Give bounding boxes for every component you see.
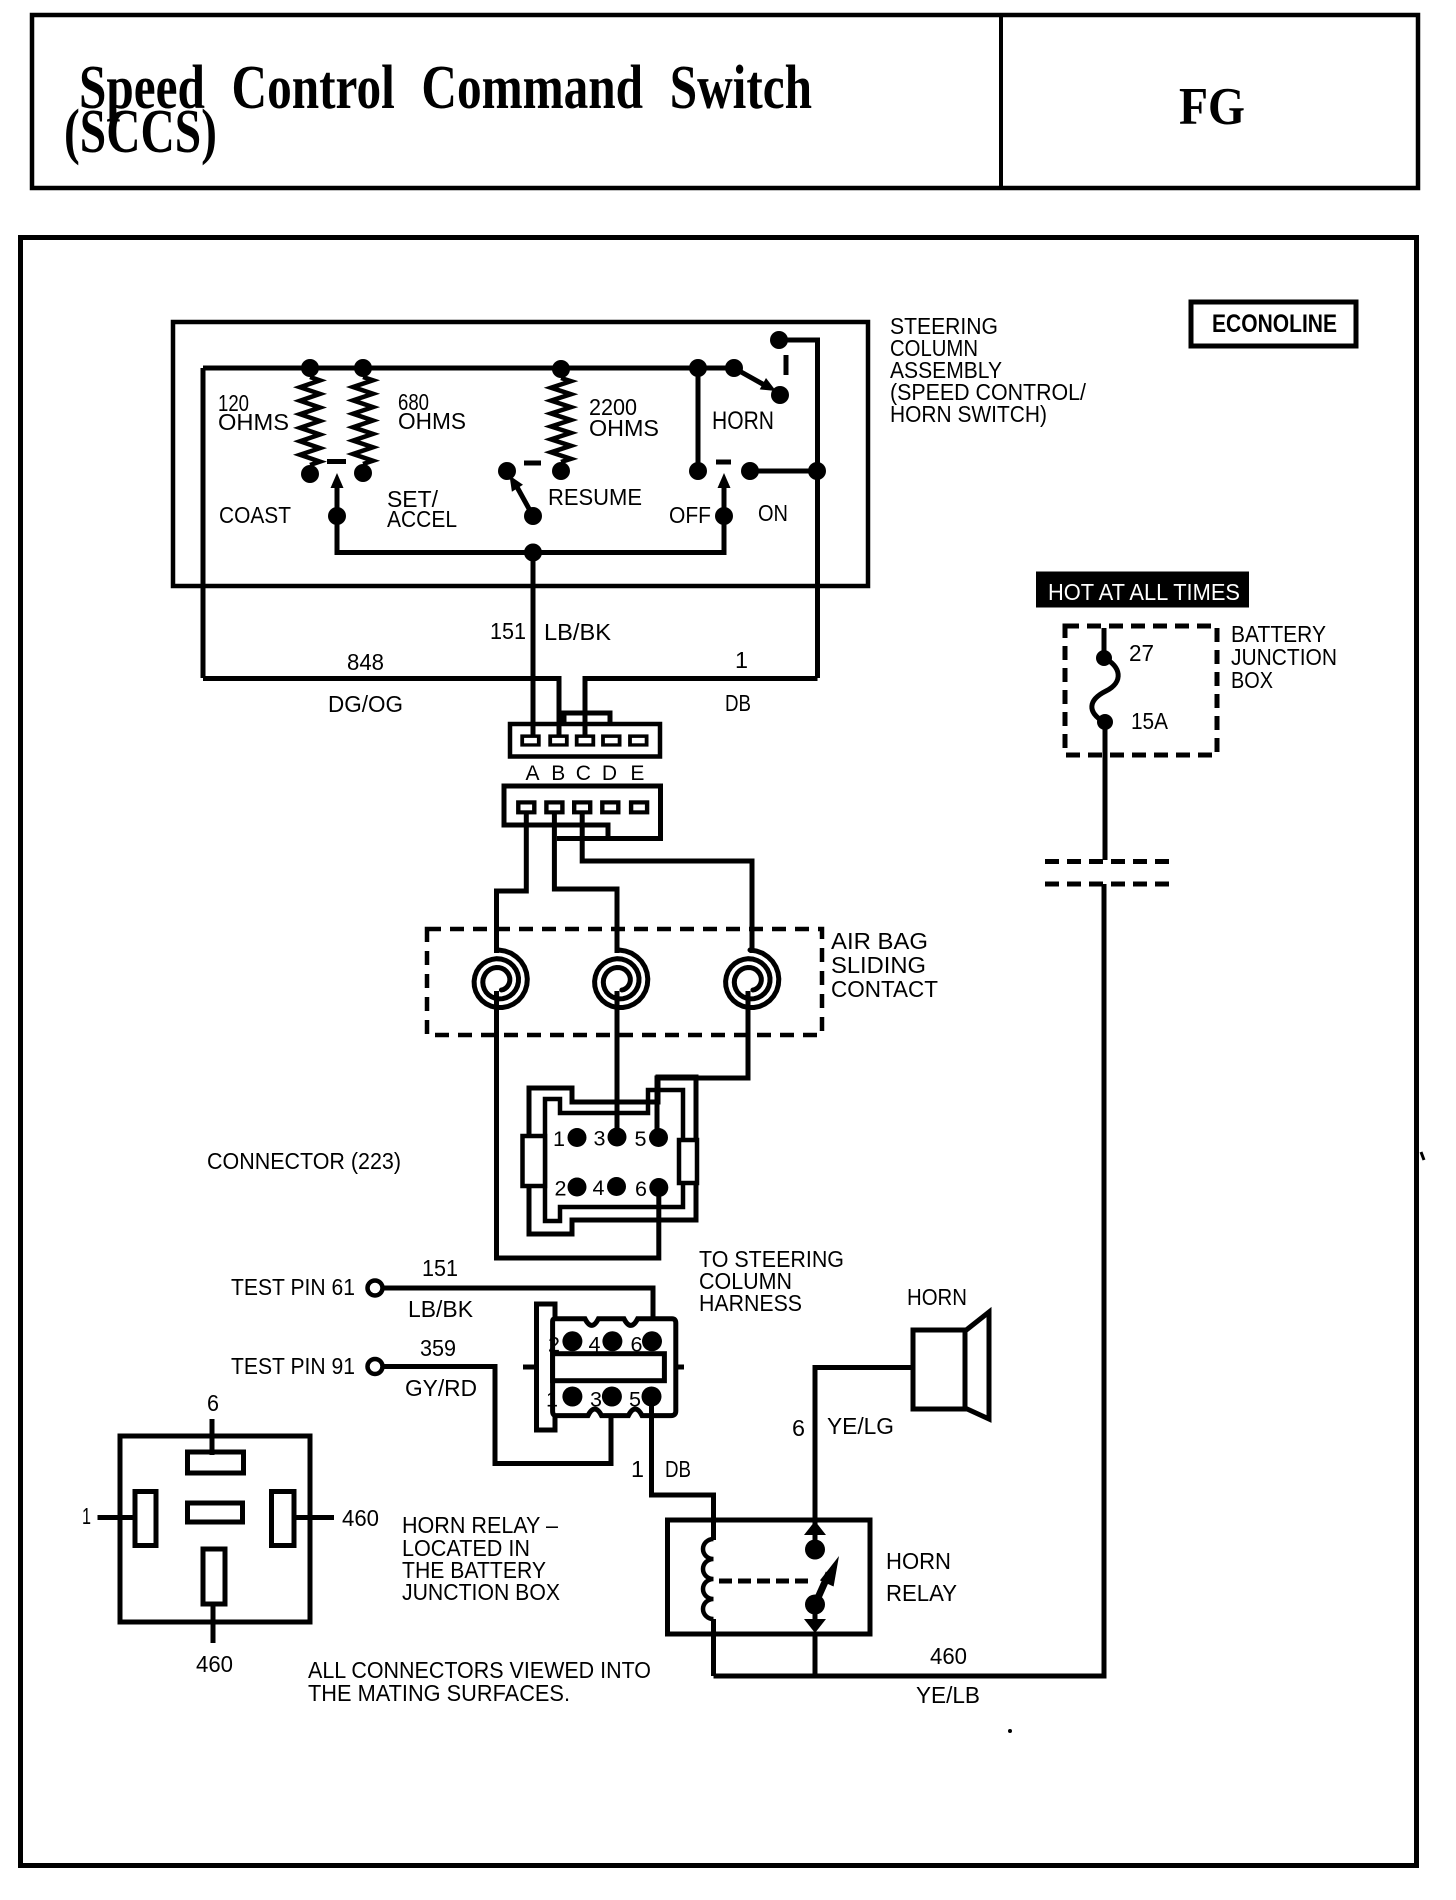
svg-text:THE MATING SURFACES.: THE MATING SURFACES.: [308, 1680, 570, 1706]
svg-text:DB: DB: [665, 1456, 691, 1482]
svg-text:TEST PIN 91: TEST PIN 91: [231, 1353, 355, 1379]
horn relay coil: [703, 1539, 713, 1619]
wire: 1 DB harness pin 5 to horn relay coil: [652, 1400, 714, 1540]
svg-text:HORN: HORN: [907, 1284, 967, 1310]
wire: pin B to air bag contact 2: [554, 814, 617, 953]
wire: right bus 1 DB to pin C: [585, 679, 818, 737]
harness connector right tick: [676, 1365, 684, 1370]
svg-text:ECONOLINE: ECONOLINE: [1212, 310, 1337, 338]
svg-text:ACCEL: ACCEL: [387, 506, 457, 532]
relay switch blade: [813, 1573, 830, 1610]
svg-text:460: 460: [342, 1505, 379, 1531]
svg-text:CONTACT: CONTACT: [831, 976, 938, 1002]
sliding contact coil 2: [595, 950, 648, 1008]
svg-text:C: C: [576, 762, 591, 785]
svg-text:848: 848: [347, 649, 384, 675]
svg-text:151: 151: [422, 1255, 458, 1281]
svg-text:OFF: OFF: [669, 502, 711, 528]
wire: coil to bottom bus: [711, 1619, 716, 1676]
pin A (male): [520, 734, 540, 746]
wire: 359 GY/RD test pin 91 to harness pin 3: [384, 1367, 612, 1464]
connector 223 pin 5: [649, 1128, 668, 1147]
harness connector pin 6: [642, 1331, 662, 1351]
pin A (female): [516, 800, 536, 814]
svg-text:DB: DB: [725, 690, 751, 716]
battery junction box dashed: [1065, 626, 1217, 755]
wire: ON contact to right riser: [750, 469, 817, 474]
svg-text:3: 3: [594, 1128, 606, 1151]
harness connector pin 1: [562, 1387, 582, 1407]
hot at all times banner: [1036, 572, 1249, 608]
lead 460 bottom: [211, 1604, 216, 1643]
svg-text:5: 5: [629, 1389, 641, 1412]
title block border: [32, 15, 1418, 188]
connector 223 pin 2: [568, 1178, 587, 1197]
horn relay box: [668, 1520, 871, 1634]
wire: top bus inside switch box: [203, 366, 734, 371]
relay connector pin 6 (top): [188, 1452, 244, 1473]
pin D (female): [600, 800, 620, 814]
svg-text:15A: 15A: [1131, 708, 1169, 734]
svg-text:BOX: BOX: [1231, 667, 1273, 693]
svg-text:HARNESS: HARNESS: [699, 1290, 802, 1316]
wire: center common down to pin A (151 LB/BK): [531, 553, 536, 739]
svg-text:RELAY: RELAY: [886, 1580, 957, 1606]
connector 223 pin 4: [607, 1177, 626, 1196]
wire: pin C to air bag contact 3: [582, 814, 752, 953]
wire: pin A to air bag contact 1: [497, 814, 527, 953]
harness connector pin 5: [642, 1387, 662, 1407]
svg-text:OHMS: OHMS: [398, 408, 466, 434]
stray tick mark right of border: [1421, 1152, 1424, 1160]
steering column assembly box: [173, 322, 868, 586]
wire: 6 YE/LG horn to relay switch: [815, 1368, 913, 1543]
harness connector left tab: [537, 1304, 556, 1430]
wire: common bus of switches: [337, 516, 724, 553]
wire: battery feed down: [1103, 722, 1108, 860]
title block divider: [999, 15, 1003, 188]
svg-text:460: 460: [196, 1651, 233, 1677]
sliding contact coil 3: [726, 950, 779, 1008]
svg-text:6: 6: [631, 1333, 643, 1356]
resistor 2200 ohms: [551, 378, 571, 462]
relay switch bottom contact: [805, 1595, 825, 1615]
wire: left bus 848 to pin B: [203, 679, 559, 737]
pin E (male): [628, 734, 648, 746]
svg-text:HORN SWITCH): HORN SWITCH): [890, 401, 1047, 427]
wire: contact 2 to connector 223 pin 3: [615, 991, 620, 1133]
lead 460 right: [294, 1515, 334, 1520]
svg-text:1: 1: [553, 1128, 565, 1151]
svg-text:5: 5: [635, 1128, 647, 1151]
fuse 27 15A: [1102, 628, 1107, 652]
svg-text:E: E: [630, 762, 644, 785]
harness connector body: [553, 1319, 676, 1416]
wire: 151 LB/BK test pin 61 to harness pin 6: [384, 1288, 654, 1336]
svg-text:6: 6: [635, 1178, 647, 1201]
switch COAST / SET-ACCEL: [327, 459, 346, 464]
lead 6: [210, 1419, 215, 1455]
svg-text:6: 6: [792, 1415, 805, 1441]
svg-text:27: 27: [1129, 640, 1154, 666]
connector 223 pin 1: [568, 1128, 587, 1147]
sliding contact coil 1: [474, 950, 527, 1008]
svg-text:HORN: HORN: [886, 1548, 951, 1574]
connector (223) inner outline: [545, 1090, 683, 1221]
relay switch bottom terminal arrow: [813, 1612, 818, 1620]
relay connector pin 460 (right): [272, 1492, 295, 1546]
pin B (male): [548, 734, 568, 746]
svg-text:TEST PIN 61: TEST PIN 61: [231, 1274, 355, 1300]
svg-text:359: 359: [420, 1335, 456, 1361]
svg-text:151: 151: [490, 618, 526, 644]
connector: SCCS 5-pin male: [564, 713, 610, 724]
svg-text:6: 6: [207, 1390, 219, 1416]
svg-text:2: 2: [548, 1333, 560, 1356]
svg-text:RESUME: RESUME: [548, 484, 642, 510]
svg-text:GY/RD: GY/RD: [405, 1375, 477, 1401]
svg-text:4: 4: [589, 1333, 601, 1356]
svg-text:AIR BAG: AIR BAG: [831, 928, 928, 954]
svg-text:1: 1: [631, 1456, 644, 1482]
pin C (female): [572, 800, 592, 814]
svg-text:YE/LG: YE/LG: [827, 1413, 894, 1439]
svg-text:3: 3: [590, 1389, 602, 1412]
connector 223 pin 6: [649, 1178, 668, 1197]
connector 223 pin 3: [608, 1128, 627, 1147]
relay connector center pin: [188, 1503, 243, 1522]
svg-text:SLIDING: SLIDING: [831, 952, 926, 978]
svg-text:D: D: [602, 762, 617, 785]
relay connector pin 1 (left): [135, 1492, 156, 1546]
svg-text:1: 1: [735, 647, 748, 673]
resistor 120 ohms: [300, 377, 320, 465]
svg-text:OHMS: OHMS: [589, 415, 659, 441]
svg-text:1: 1: [546, 1389, 558, 1412]
ECONOLINE label box: [1191, 302, 1356, 346]
harness connector pin 2: [562, 1331, 582, 1351]
wire: horn top contact to right riser: [779, 340, 818, 678]
switch OFF / ON: [689, 462, 707, 480]
pin D (male): [601, 734, 621, 746]
inline connector (pass-through): [1045, 859, 1169, 864]
svg-text:HORN: HORN: [712, 407, 774, 435]
pin E (female): [629, 800, 649, 814]
connector: harness 5-pin female: [504, 786, 661, 839]
switch RESUME: [498, 462, 516, 480]
svg-text:ON: ON: [758, 500, 788, 526]
pin B (female): [544, 800, 564, 814]
svg-text:460: 460: [930, 1643, 967, 1669]
resistor 680 ohms: [353, 377, 373, 464]
svg-text:4: 4: [593, 1177, 605, 1200]
svg-text:HOT AT ALL TIMES: HOT AT ALL TIMES: [1048, 579, 1240, 605]
harness connector pin 4: [602, 1331, 622, 1351]
wire: contact 3 to connector 223 pin 5: [657, 991, 748, 1133]
switch HORN: [725, 359, 743, 377]
svg-text:(SCCS): (SCCS): [64, 98, 217, 166]
svg-text:1: 1: [82, 1503, 91, 1529]
svg-text:JUNCTION BOX: JUNCTION BOX: [402, 1579, 560, 1605]
svg-text:B: B: [551, 762, 565, 785]
relay switch top contact: [805, 1540, 825, 1560]
air bag sliding contact dashed box: [427, 929, 822, 1035]
connector (223) right tab: [679, 1140, 697, 1183]
svg-text:LB/BK: LB/BK: [408, 1296, 474, 1322]
connector (223) outer outline: [529, 1077, 696, 1234]
lead 1: [98, 1515, 136, 1520]
harness connector left tick: [523, 1365, 537, 1370]
svg-text:OHMS: OHMS: [218, 409, 289, 435]
harness connector pin 3: [602, 1387, 622, 1407]
harness connector middle slot: [553, 1354, 665, 1381]
svg-text:LB/BK: LB/BK: [544, 619, 612, 645]
pin C (male): [575, 734, 595, 746]
svg-text:COAST: COAST: [219, 502, 291, 528]
relay connector pin 460 (bottom): [203, 1549, 225, 1604]
relay switch top terminal arrow: [804, 1521, 826, 1535]
relay dashed actuator link: [719, 1579, 808, 1584]
svg-text:DG/OG: DG/OG: [328, 691, 403, 717]
svg-text:CONNECTOR (223): CONNECTOR (223): [207, 1148, 401, 1174]
svg-text:A: A: [525, 762, 539, 785]
wire: contact 1 to connector 223 pin 6: [497, 991, 659, 1258]
wire: 460 YE/LB bottom bus: [714, 884, 1105, 1676]
svg-text:FG: FG: [1179, 78, 1245, 136]
svg-text:2: 2: [555, 1178, 567, 1201]
connector (223) left tab: [523, 1136, 546, 1186]
svg-text:YE/LB: YE/LB: [916, 1682, 980, 1708]
wire: OFF contact to top bus: [696, 368, 701, 471]
horn relay connector box: [120, 1436, 310, 1622]
wire: left vertical (circuit 848) inside box: [201, 368, 206, 678]
